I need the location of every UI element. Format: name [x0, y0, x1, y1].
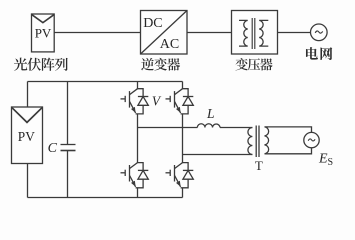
label: guang fu zhen lie [14, 58, 68, 71]
PV panel source [12, 107, 43, 164]
IGBT gate lead [166, 172, 170, 174]
wire PV bottom lead [27, 164, 29, 198]
IGBT gate bar [169, 170, 171, 176]
wire: diode anode to emitter bottom bar [181, 179, 189, 188]
grid AC source [311, 24, 328, 41]
svg-text:E: E [318, 152, 328, 167]
svg-text:C: C [48, 141, 58, 156]
transformer T secondary winding [265, 127, 269, 154]
IGBT emitter lead [175, 102, 181, 113]
DC bus bottom rail [28, 197, 183, 199]
IGBT body bar [174, 165, 176, 182]
IGBT collector lead [130, 163, 138, 169]
IGBT emitter lead [130, 176, 136, 187]
IGBT emitter arrowhead [176, 107, 181, 113]
wire: collector/diode top bar [183, 89, 189, 97]
IGBT gate bar [124, 170, 126, 176]
wire: collector/diode top bar [183, 163, 189, 171]
IGBT emitter arrowhead [131, 181, 136, 187]
IGBT collector lead [130, 89, 138, 95]
IGBT gate lead [121, 172, 125, 174]
phase B wire [183, 154, 253, 156]
IGBT emitter arrowhead [131, 107, 136, 113]
capacitor C [61, 82, 76, 198]
svg-text:AC: AC [160, 37, 179, 52]
AC source Es [304, 132, 319, 147]
IGBT collector lead [175, 163, 183, 169]
IGBT emitter arrowhead [176, 181, 181, 187]
svg-text:L: L [206, 106, 215, 121]
IGBT body bar [129, 165, 131, 182]
svg-text:PV: PV [18, 129, 35, 144]
diode cathode bar [183, 169, 193, 171]
DC/AC inverter block [141, 11, 188, 55]
IGBT body bar [129, 91, 131, 108]
wire PV to inverter [54, 32, 140, 34]
wire secondary top to source [265, 127, 312, 133]
wire: collector/diode top bar [138, 89, 144, 97]
left leg wire segments [137, 82, 139, 198]
inductor L [197, 124, 220, 128]
wire: diode anode to emitter bottom bar [181, 105, 189, 114]
IGBT gate lead [121, 98, 125, 100]
svg-text:T: T [255, 158, 263, 173]
diode cathode bar [138, 96, 148, 98]
transformer T core [255, 126, 257, 158]
DC bus top rail [28, 81, 183, 83]
wire inductor to transformer [220, 127, 252, 129]
IGBT body bar [174, 91, 176, 108]
svg-text:S: S [328, 157, 334, 168]
transformer block [232, 11, 278, 55]
wire: diode anode to emitter bottom bar [136, 179, 144, 188]
IGBT emitter lead [130, 102, 136, 113]
wire transformer to grid [278, 32, 311, 34]
phase A wire to inductor [138, 127, 198, 129]
IGBT collector lead [175, 89, 183, 95]
diode triangle [183, 170, 193, 179]
svg-text:DC: DC [143, 16, 162, 31]
wire secondary bottom to source [265, 148, 312, 154]
label: ni bian qi [141, 58, 180, 71]
IGBT gate bar [124, 96, 126, 102]
right leg wire segments [182, 82, 184, 198]
wire inverter to transformer [187, 32, 232, 34]
label: dian wang [306, 47, 332, 60]
wire: collector/diode top bar [138, 163, 144, 171]
IGBT V1 top-left with antiparallel diode [121, 89, 149, 114]
label: bian ya qi [235, 58, 272, 71]
IGBT V2 top-right with antiparallel diode [166, 89, 194, 114]
IGBT emitter lead [175, 176, 181, 187]
svg-text:PV: PV [35, 26, 52, 41]
IGBT gate lead [166, 98, 170, 100]
diode cathode bar [183, 96, 193, 98]
IGBT V3 bottom-left with antiparallel diode [121, 163, 149, 188]
wire PV top lead [27, 82, 29, 108]
transformer T primary winding [248, 128, 253, 155]
diode cathode bar [138, 169, 148, 171]
PV array block [32, 14, 55, 52]
diode triangle [138, 97, 148, 106]
wire: diode anode to emitter bottom bar [136, 105, 144, 114]
IGBT V4 bottom-right with antiparallel diode [166, 163, 194, 188]
diode triangle [183, 97, 193, 106]
diode triangle [138, 170, 148, 179]
IGBT gate bar [169, 96, 171, 102]
